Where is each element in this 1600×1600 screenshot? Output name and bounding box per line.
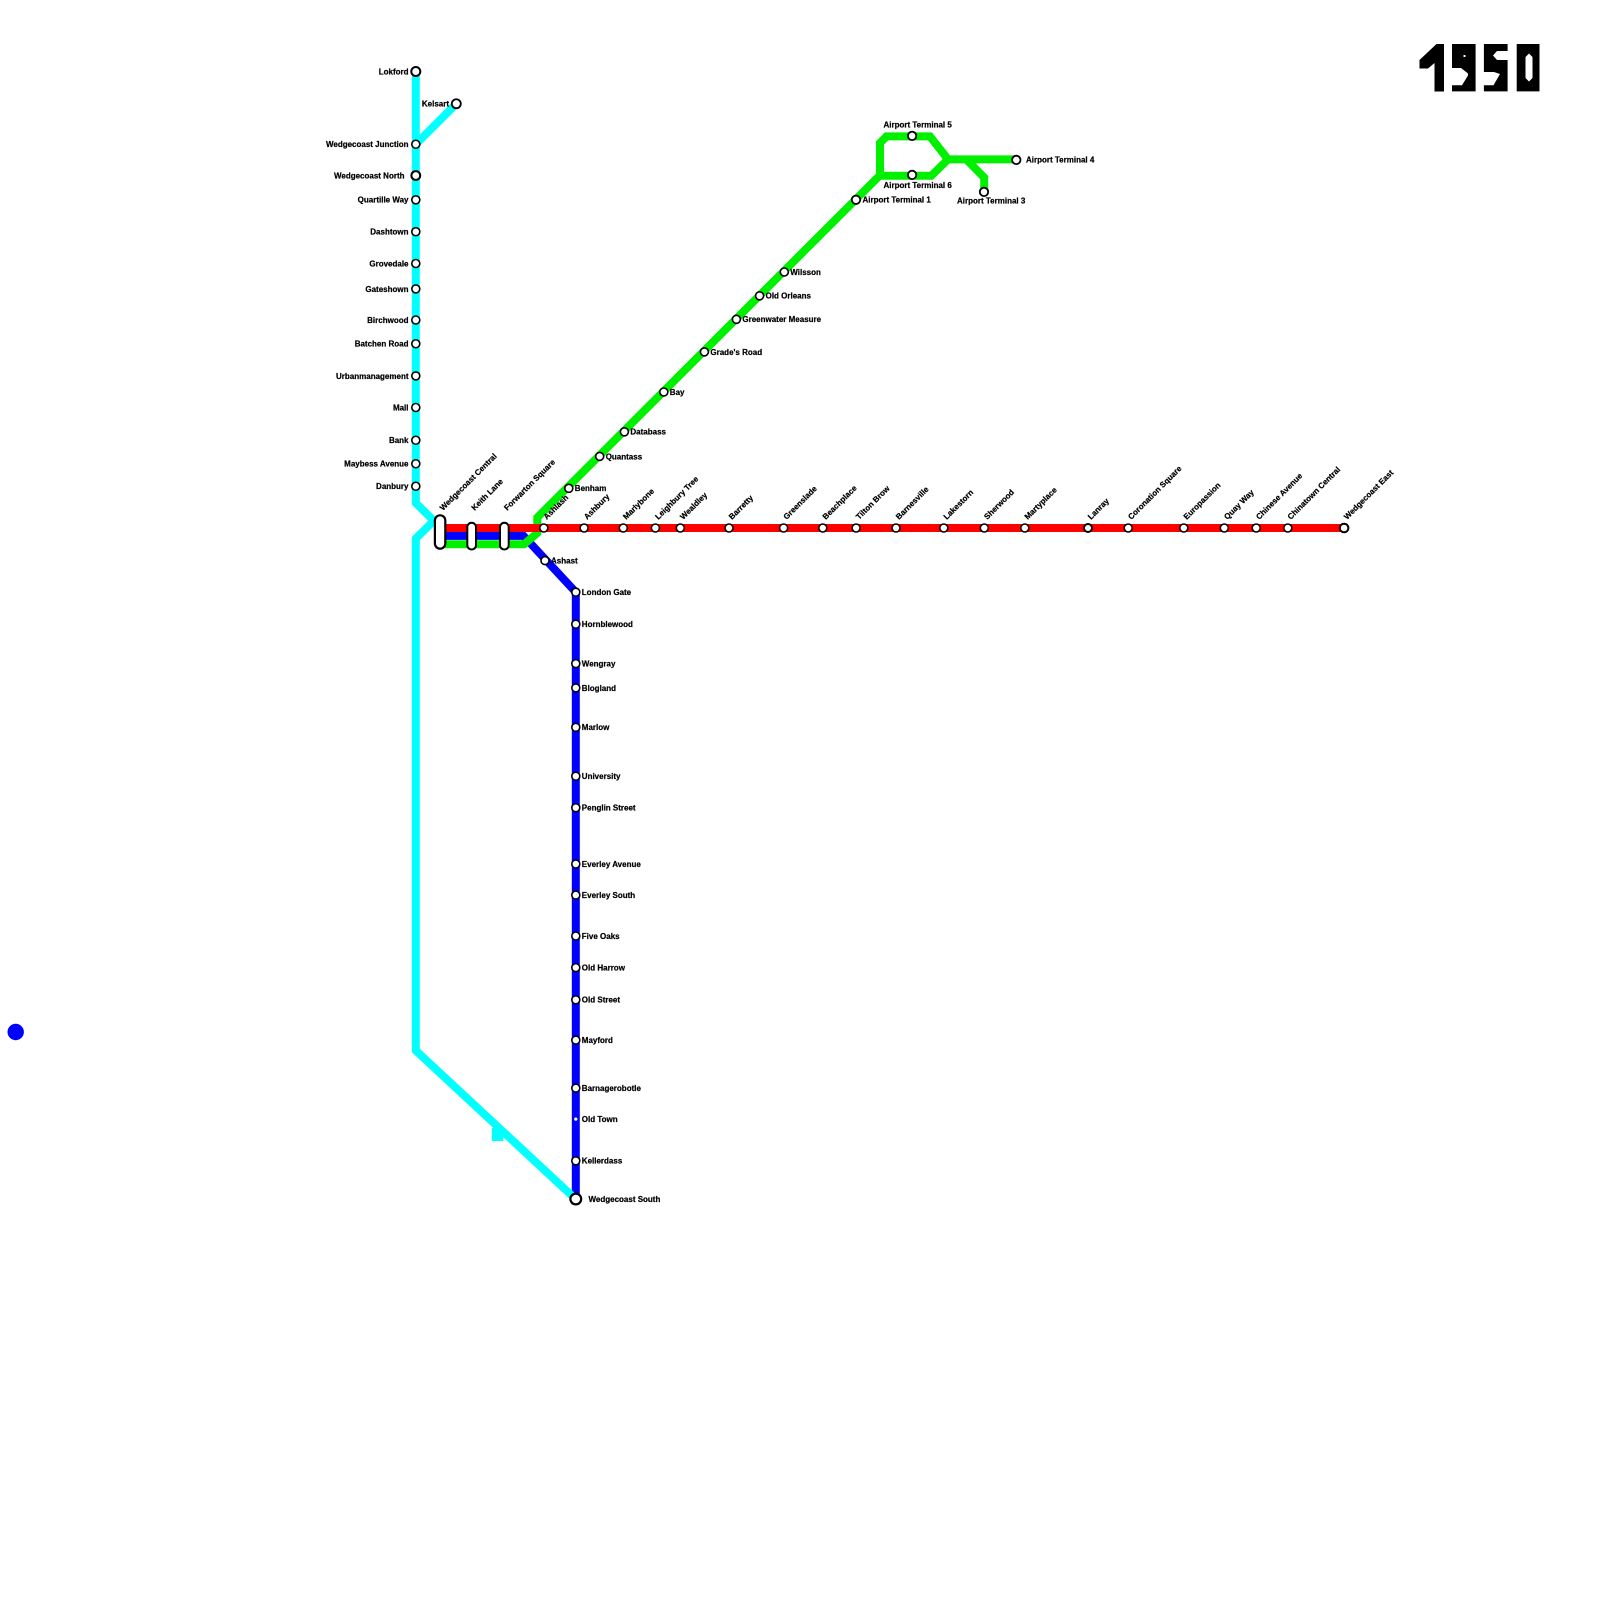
svg-text:Dashtown: Dashtown [370, 228, 408, 237]
station Chinese Avenue (red line) [1252, 524, 1260, 532]
station Marlybone (red line) [619, 524, 627, 532]
station Penglin Street (blue line) [572, 804, 580, 812]
svg-text:Urbanmanagement: Urbanmanagement [336, 372, 409, 381]
svg-text:Wedgecoast North: Wedgecoast North [334, 171, 405, 180]
station Mall (cyan line) [412, 404, 420, 412]
svg-text:Old Harrow: Old Harrow [582, 964, 626, 973]
station Quay Way (red line) [1220, 524, 1228, 532]
svg-text:Wedgecoast South: Wedgecoast South [589, 1195, 661, 1204]
station Leighbury Tree (red line) [651, 524, 659, 532]
station Old Orleans (green line) [756, 292, 764, 300]
station Wengray (blue line) [572, 660, 580, 668]
svg-text:Databass: Databass [630, 428, 666, 437]
svg-text:Ashast: Ashast [551, 557, 578, 566]
svg-text:Gateshown: Gateshown [365, 285, 408, 294]
svg-text:Everley Avenue: Everley Avenue [582, 860, 642, 869]
svg-text:Kellerdass: Kellerdass [582, 1157, 623, 1166]
station Batchen Road (cyan line) [412, 340, 420, 348]
station Quartille Way (cyan line) [412, 196, 420, 204]
station Airport Terminal 5 [908, 132, 916, 140]
wire: green airport loop bottom segment [880, 159, 948, 175]
interchange station Wedgecoast Central [435, 515, 445, 548]
station Barretty (red line) [725, 524, 733, 532]
wire: green branch to Airport Terminal 3 [966, 159, 984, 192]
station Ashbury (red line) [580, 524, 588, 532]
station Airport Terminal 6 [908, 171, 916, 179]
station Coronation Square (red line) [1124, 524, 1132, 532]
station Grade's Road (green line) [700, 348, 708, 356]
station Airport Terminal 4 [1012, 156, 1020, 164]
station Beachplace (red line) [819, 524, 827, 532]
station Mayford (blue line) [572, 1036, 580, 1044]
station Barnagerobotle (blue line) [572, 1084, 580, 1092]
wire: red line (Wedgecoast Central to Wedgecoast East) [445, 524, 1344, 532]
svg-text:Airport Terminal 1: Airport Terminal 1 [863, 195, 932, 204]
svg-text:Old Town: Old Town [582, 1115, 618, 1124]
station Lakestorn (red line) [940, 524, 948, 532]
svg-text:Airport Terminal 5: Airport Terminal 5 [884, 120, 953, 129]
station Martyplace (red line) [1021, 524, 1029, 532]
svg-text:Airport Terminal 4: Airport Terminal 4 [1026, 156, 1095, 165]
station Bank (cyan line) [412, 436, 420, 444]
station Urbanmanagement (cyan line) [412, 372, 420, 380]
svg-text:Quartille Way: Quartille Way [358, 196, 409, 205]
station Gateshown (cyan line) [412, 285, 420, 293]
station Lokford (cyan line) [411, 67, 420, 76]
svg-text:Airport Terminal 6: Airport Terminal 6 [884, 181, 953, 190]
svg-text:Barnagerobotle: Barnagerobotle [582, 1084, 642, 1093]
station Old Harrow (blue line) [572, 964, 580, 972]
station Barnesville (red line) [892, 524, 900, 532]
station Tilton Brow (red line) [852, 524, 860, 532]
station Wedgecoast Junction (cyan line) [412, 140, 420, 148]
svg-text:Benham: Benham [575, 484, 607, 493]
svg-text:Grovedale: Grovedale [369, 259, 409, 268]
station Ashlash (red line) [540, 524, 548, 532]
wire: blue line (Wedgecoast Central to Wedgecoast South) [445, 536, 576, 1205]
station Grovedale (cyan line) [412, 260, 420, 268]
svg-text:Airport Terminal 3: Airport Terminal 3 [957, 197, 1026, 206]
svg-text:Quantass: Quantass [606, 452, 643, 461]
node: blue dot at left margin [8, 1024, 24, 1040]
station Old Street (blue line) [572, 996, 580, 1004]
svg-text:Old Orleans: Old Orleans [766, 292, 812, 301]
svg-text:Maybess Avenue: Maybess Avenue [344, 460, 409, 469]
svg-text:Grade's Road: Grade's Road [710, 348, 762, 357]
station Lanray (red line) [1084, 524, 1092, 532]
svg-text:Wilsson: Wilsson [790, 268, 821, 277]
year label 1950 digit 5 [1484, 44, 1508, 91]
svg-text:Bay: Bay [670, 388, 685, 397]
station Everley Avenue (blue line) [572, 860, 580, 868]
station Greenwater Measure (green line) [732, 315, 740, 323]
year label 1950 digit 9 [1452, 44, 1476, 91]
station Maybess Avenue (cyan line) [412, 460, 420, 468]
station Marlow (blue line) [572, 723, 580, 731]
station Databass (green line) [620, 428, 628, 436]
svg-text:University: University [582, 772, 621, 781]
wire: cyan line main (Lokford to Wedgecoast South) [416, 72, 576, 1200]
station Wedgecoast East (red line) [1340, 524, 1349, 533]
interchange station Forwarton Square [500, 523, 509, 550]
station Greenslade (red line) [780, 524, 788, 532]
svg-text:Mall: Mall [393, 403, 409, 412]
station Five Oaks (blue line) [572, 932, 580, 940]
wire: cyan branch to Kelsart [416, 104, 457, 145]
station Bay (green line) [660, 388, 668, 396]
station Blogland (blue line) [572, 684, 580, 692]
station Wilsson (green line) [780, 268, 788, 276]
station Old Town small dot (blue line) [574, 1118, 577, 1121]
svg-text:Old Street: Old Street [582, 996, 621, 1005]
svg-text:Five Oaks: Five Oaks [582, 932, 620, 941]
station Dashtown (cyan line) [412, 228, 420, 236]
station Danbury (cyan line) [412, 482, 420, 490]
station Sherwood (red line) [980, 524, 988, 532]
interchange station Keith Lane [467, 523, 476, 550]
svg-text:Batchen Road: Batchen Road [355, 340, 409, 349]
svg-text:Lokford: Lokford [379, 67, 409, 76]
svg-text:Everley South: Everley South [582, 891, 635, 900]
station Ashast (blue line) [541, 557, 549, 565]
station London Gate (blue line) [572, 588, 580, 596]
station Wedgecoast South terminus [570, 1194, 581, 1205]
station Chinatown Central (red line) [1284, 524, 1292, 532]
wire: cyan kink tab on south diagonal [492, 1128, 504, 1141]
svg-text:Hornblewood: Hornblewood [582, 620, 633, 629]
svg-text:Bank: Bank [389, 436, 409, 445]
svg-text:Danbury: Danbury [376, 482, 409, 491]
station Quantass (green line) [596, 452, 604, 460]
station Wealdley (red line) [676, 524, 684, 532]
wire: green airport line (Wedgecoast Central to Airport Terminal 4) [445, 136, 1016, 544]
station Everley South (blue line) [572, 891, 580, 899]
svg-text:London Gate: London Gate [582, 588, 632, 597]
svg-text:Wengray: Wengray [582, 660, 616, 669]
svg-text:Birchwood: Birchwood [367, 316, 408, 325]
svg-text:Penglin Street: Penglin Street [582, 804, 636, 813]
year label 1950 digit 1 [1420, 44, 1445, 92]
station University (blue line) [572, 772, 580, 780]
year label 1950 digit 0 [1517, 44, 1540, 91]
station Benham (green line) [565, 484, 573, 492]
station Wedgecoast North (cyan line) [411, 171, 420, 180]
station Hornblewood (blue line) [572, 620, 580, 628]
svg-text:Wedgecoast Junction: Wedgecoast Junction [326, 140, 409, 149]
station Kellerdass (blue line) [572, 1157, 580, 1165]
svg-text:Marlow: Marlow [582, 723, 610, 732]
svg-text:Mayford: Mayford [582, 1036, 613, 1045]
station Europassion (red line) [1180, 524, 1188, 532]
svg-text:Blogland: Blogland [582, 684, 616, 693]
station Airport Terminal 1 [852, 196, 860, 204]
svg-text:Greenwater Measure: Greenwater Measure [742, 315, 821, 324]
station Airport Terminal 3 [980, 188, 988, 196]
station Birchwood (cyan line) [412, 316, 420, 324]
svg-text:Kelsart: Kelsart [422, 100, 449, 109]
station Kelsart (cyan branch) [452, 99, 461, 108]
